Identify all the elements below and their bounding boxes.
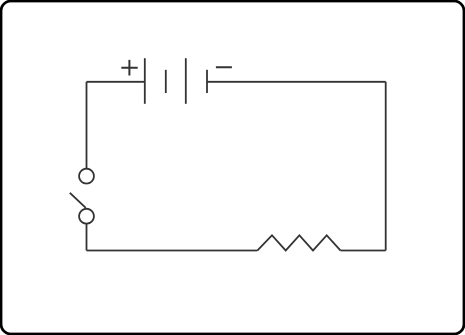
wire top-left (battery + terminal to left corner) — [87, 81, 145, 83]
battery B1 negative plate (short) — [165, 70, 167, 93]
switch S1 upper contact circle — [79, 169, 94, 184]
battery B2 positive plate (long) — [185, 58, 187, 104]
battery B1 positive plate (long) — [144, 58, 146, 104]
resistor R1 zigzag — [257, 235, 340, 250]
battery B2 negative plate (short) — [206, 70, 208, 93]
wire bottom-left (resistor to left corner) — [87, 250, 258, 252]
wire top-right (battery - terminal to right corner) — [207, 81, 386, 83]
minus label at battery negative terminal — [216, 66, 232, 68]
wire right side — [385, 82, 387, 251]
switch S1 lever (open) — [70, 193, 86, 208]
plus label at battery positive terminal — [121, 60, 137, 76]
wire left-bottom (corner up to switch lower contact) — [86, 224, 88, 251]
switch S1 lower contact circle — [79, 209, 94, 224]
wire left-top (upper contact up to top corner) — [86, 82, 88, 169]
wire bottom-right (corner to resistor) — [341, 250, 386, 252]
